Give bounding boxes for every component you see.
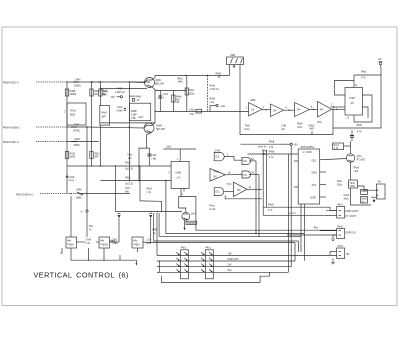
resistor R489 xyxy=(185,88,188,95)
svg-text:R4xx: R4xx xyxy=(337,181,343,183)
svg-text:1/4: 1/4 xyxy=(251,109,255,111)
wire q487 up xyxy=(179,196,186,212)
wire g2 out xyxy=(224,191,233,193)
svg-text:L/O: L/O xyxy=(177,178,181,180)
wire disp fls feed2 xyxy=(287,234,337,236)
wire r2 feed xyxy=(129,95,134,97)
svg-text:SD1-067: SD1-067 xyxy=(156,129,166,131)
svg-text:NC: NC xyxy=(252,172,256,174)
transistor Q487 xyxy=(182,212,190,220)
wire q486 top xyxy=(350,141,352,154)
wire u7b out xyxy=(249,174,259,176)
connector P481 xyxy=(337,207,345,219)
svg-text:C445: C445 xyxy=(76,190,82,192)
capacitor C481 xyxy=(158,95,162,97)
wire Q484 emit xyxy=(146,133,151,149)
tap arrow x119 xyxy=(118,212,121,214)
svg-text:R4x1: R4x1 xyxy=(361,72,367,74)
svg-text:(3300): (3300) xyxy=(74,86,81,88)
svg-text:DISP EXIT: DISP EXIT xyxy=(228,259,240,261)
svg-text:R4x0: R4x0 xyxy=(177,78,183,80)
wire y123 xyxy=(100,122,155,124)
wire mesh h107 xyxy=(155,111,249,113)
svg-text:R4x3: R4x3 xyxy=(146,189,152,191)
svg-text:2: 2 xyxy=(64,112,66,114)
svg-text:R4xx: R4xx xyxy=(189,90,195,92)
ic U487 box xyxy=(345,88,363,116)
wire vbus x304 xyxy=(303,204,305,234)
svg-text:39x: 39x xyxy=(176,99,181,101)
svg-text:+12x: +12x xyxy=(220,106,226,108)
wire h207 xyxy=(263,207,337,210)
svg-text:SD1-067: SD1-067 xyxy=(155,83,165,85)
resistor R441 xyxy=(99,89,102,96)
svg-text:36P: 36P xyxy=(101,117,106,119)
svg-text:5: 5 xyxy=(169,173,171,175)
wire s484 bottom xyxy=(225,195,262,198)
svg-text:R4x8: R4x8 xyxy=(354,168,360,170)
wire vbus x263 xyxy=(262,150,264,216)
svg-text:36P: 36P xyxy=(94,157,99,159)
tap arrow x150 xyxy=(149,212,152,214)
svg-text:x6: x6 xyxy=(228,172,231,174)
triangle S484 xyxy=(234,182,248,196)
svg-text:U7x: U7x xyxy=(243,175,248,177)
svg-text:R4x8: R4x8 xyxy=(297,124,303,126)
svg-text:5 31: 5 31 xyxy=(227,184,232,186)
svg-text:x1: x1 xyxy=(355,85,358,87)
wire u7a out xyxy=(249,160,256,162)
svg-text:R4x1: R4x1 xyxy=(334,145,340,147)
wire supply feed2 xyxy=(248,153,299,155)
resistor R411b xyxy=(65,152,68,159)
svg-text:1.2kP 1/2: 1.2kP 1/2 xyxy=(115,92,125,94)
svg-text:1P: 1P xyxy=(137,100,140,102)
wire bus row3 xyxy=(154,213,299,241)
svg-text:T4x: T4x xyxy=(378,182,383,184)
svg-text:T4(D)+: T4(D)+ xyxy=(133,245,141,247)
svg-text:R4x0: R4x0 xyxy=(357,125,363,127)
svg-text:1.18P: 1.18P xyxy=(131,115,138,117)
and gate G2 xyxy=(214,188,224,196)
wire vbus x298 xyxy=(297,241,299,252)
wire vbus x266 xyxy=(266,150,268,207)
svg-text:2: 2 xyxy=(227,154,229,156)
connector P482 xyxy=(337,229,345,239)
svg-text:C4x2: C4x2 xyxy=(166,147,172,149)
svg-text:HD: HD xyxy=(346,254,350,256)
wire vbus x301 xyxy=(300,204,302,236)
node +12V xyxy=(216,104,218,106)
connector P483 xyxy=(337,248,345,259)
svg-text:C4x4: C4x4 xyxy=(86,240,92,242)
svg-text:C448: C448 xyxy=(74,139,80,141)
svg-text:GDL: GDL xyxy=(312,161,317,163)
svg-text:(4k: (4k xyxy=(128,158,132,160)
svg-text:4.7k: 4.7k xyxy=(357,132,362,134)
svg-text:(xL/1.5): (xL/1.5) xyxy=(125,169,133,171)
wire box links xyxy=(77,241,86,243)
svg-text:4x6x: 4x6x xyxy=(344,198,350,200)
svg-text:U485: U485 xyxy=(176,173,182,175)
svg-text:+x: +x xyxy=(80,212,83,214)
wire pin row4 xyxy=(157,271,288,273)
box T488 xyxy=(349,180,358,188)
svg-text:x: x xyxy=(182,194,184,196)
svg-text:2: 2 xyxy=(263,107,265,109)
svg-text:.47uF 1/x: .47uF 1/x xyxy=(210,89,221,91)
svg-text:C4x7: C4x7 xyxy=(138,117,144,119)
wire J480 pins xyxy=(233,65,235,67)
svg-text:TR660P: TR660P xyxy=(187,223,196,225)
svg-text:R421: R421 xyxy=(94,154,100,156)
svg-text:GND: GND xyxy=(312,173,317,175)
wire bottom collect xyxy=(61,248,63,253)
svg-text:P4x1: P4x1 xyxy=(206,248,212,250)
svg-text:R487: R487 xyxy=(117,89,123,91)
wire ic bottom line xyxy=(333,75,381,128)
gate U7a xyxy=(242,157,251,164)
label TR660P xyxy=(186,221,197,224)
wire cap below ic xyxy=(351,130,353,135)
svg-text:1P: 1P xyxy=(176,102,179,104)
svg-text:R4x0: R4x0 xyxy=(101,91,107,93)
svg-text:C447: C447 xyxy=(75,80,81,82)
svg-text:P4x1: P4x1 xyxy=(338,205,344,207)
wire line y166 xyxy=(67,165,171,167)
wire vbus x288 xyxy=(287,154,289,272)
gate U7b xyxy=(242,171,251,178)
svg-text:(x): (x) xyxy=(362,201,365,203)
wire oa4-out xyxy=(332,108,346,110)
inverter G486 xyxy=(210,169,225,182)
wire vbus x259 xyxy=(258,175,260,237)
wire pinrow left ends xyxy=(156,213,158,255)
svg-text:DISP FLS: DISP FLS xyxy=(346,233,357,235)
svg-text:R4x7: R4x7 xyxy=(125,177,131,179)
svg-text:NC: NC xyxy=(251,159,255,161)
svg-text:+5V: +5V xyxy=(294,145,299,147)
wire oa1-2 xyxy=(262,109,271,111)
resistor R488b xyxy=(172,95,175,102)
wire vert x207 xyxy=(207,76,209,112)
svg-text:R411: R411 xyxy=(70,111,76,113)
svg-text:R4x: R4x xyxy=(318,122,323,124)
svg-text:4.7k: 4.7k xyxy=(269,147,274,149)
svg-text:T4x1: T4x1 xyxy=(127,155,133,157)
svg-text:G4x0: G4x0 xyxy=(215,151,221,153)
svg-text:P4x2: P4x2 xyxy=(338,227,344,229)
wire h215 xyxy=(263,214,337,216)
resistor R413 box xyxy=(100,106,110,126)
sub box T484 xyxy=(139,148,149,180)
svg-text:G4x6: G4x6 xyxy=(214,171,220,173)
svg-text:3k: 3k xyxy=(153,233,156,235)
box H480 xyxy=(66,237,77,248)
wire ic loop xyxy=(335,81,355,96)
svg-text:1.3Bx: 1.3Bx xyxy=(112,243,119,245)
wire drop x86 xyxy=(86,210,88,212)
svg-text:R4x8: R4x8 xyxy=(210,86,216,88)
svg-text:Q483: Q483 xyxy=(155,80,161,82)
svg-text:R4x8: R4x8 xyxy=(269,152,275,154)
wire bus row2 xyxy=(159,213,301,236)
svg-text:4.5x: 4.5x xyxy=(189,114,194,116)
wire input2 xyxy=(67,126,87,128)
label P4x5 xyxy=(361,190,368,195)
wire oa2-3 xyxy=(284,109,295,111)
svg-text:H4x: H4x xyxy=(133,241,138,243)
resistor R411 box xyxy=(67,103,86,125)
svg-text:PWD IN B2(+)-C: PWD IN B2(+)-C xyxy=(16,194,34,196)
wire ic pin net xyxy=(179,195,196,197)
svg-text:W4x2: W4x2 xyxy=(309,125,316,127)
wire drop x71 xyxy=(70,196,72,237)
wire input1 xyxy=(67,81,150,83)
svg-text:C4x1: C4x1 xyxy=(163,94,169,96)
resistor R401 xyxy=(90,89,93,96)
svg-text:(.2k: (.2k xyxy=(281,129,286,131)
wire bus x67 xyxy=(66,82,68,194)
svg-text:(4B: (4B xyxy=(125,191,129,193)
wire collector line xyxy=(155,75,229,77)
transistor Q486 xyxy=(346,154,354,162)
svg-text:+5V: +5V xyxy=(228,253,233,255)
svg-text:R4x8: R4x8 xyxy=(361,191,367,193)
box right small xyxy=(377,184,386,199)
svg-text:R411: R411 xyxy=(70,154,76,156)
wire bus x91 xyxy=(91,82,93,166)
wire supply feed xyxy=(241,143,283,145)
svg-text:(4.8k): (4.8k) xyxy=(117,111,123,113)
svg-text:1K: 1K xyxy=(218,77,221,79)
svg-text:SD5 SUPPLY: SD5 SUPPLY xyxy=(301,147,316,149)
transistor Q483 xyxy=(145,78,155,88)
svg-text:(49x): (49x) xyxy=(178,81,184,83)
svg-text:1: 1 xyxy=(246,107,248,109)
wire t488 net xyxy=(351,188,372,205)
svg-text:R482: R482 xyxy=(216,74,222,76)
svg-text:C4x7: C4x7 xyxy=(125,188,131,190)
svg-text:R488: R488 xyxy=(131,111,137,113)
svg-text:PWM IN B27-C: PWM IN B27-C xyxy=(3,83,19,85)
wire bus x115 xyxy=(115,166,117,212)
svg-text:U487: U487 xyxy=(350,98,356,100)
svg-text:x2: x2 xyxy=(347,118,350,120)
svg-text:R488: R488 xyxy=(70,91,76,93)
svg-text:12P: 12P xyxy=(111,97,116,99)
svg-text:C4x8: C4x8 xyxy=(361,199,367,201)
svg-text:(xx): (xx) xyxy=(147,243,151,245)
wire bus x100 xyxy=(99,82,101,106)
svg-text:P4x1: P4x1 xyxy=(181,248,187,250)
wire q486 down xyxy=(350,162,352,180)
wire pin row2 xyxy=(157,260,295,262)
svg-text:x: x xyxy=(163,97,165,99)
node +5V supply xyxy=(290,143,292,145)
svg-text:100x: 100x xyxy=(337,184,343,186)
wire bottom long xyxy=(161,272,269,282)
wire u485 top xyxy=(163,148,196,150)
wire emitter left xyxy=(100,88,147,90)
wire bus x129 xyxy=(128,82,130,181)
svg-text:4.7k: 4.7k xyxy=(361,78,366,80)
box H482 xyxy=(132,237,143,248)
svg-text:(.3k): (.3k) xyxy=(354,171,359,173)
svg-text:R4x8: R4x8 xyxy=(176,97,182,99)
svg-text:(xxx): (xxx) xyxy=(69,180,74,182)
svg-text:R401: R401 xyxy=(94,91,100,93)
svg-text:R4x8: R4x8 xyxy=(269,142,275,144)
svg-text:R4x8: R4x8 xyxy=(210,99,216,101)
svg-text:( .8x: ( .8x xyxy=(146,192,151,194)
wire mesh h91 xyxy=(155,90,187,92)
svg-text:(1.2k): (1.2k) xyxy=(210,209,216,211)
op-amp U480d xyxy=(318,102,332,118)
svg-text:C4x8: C4x8 xyxy=(69,177,75,179)
svg-text:(xL/1.5): (xL/1.5) xyxy=(125,184,133,186)
svg-text:C4B: C4B xyxy=(281,126,286,128)
svg-text:(C4x: (C4x xyxy=(297,127,303,129)
wire ic top feed xyxy=(354,67,381,75)
svg-text:G4x5: G4x5 xyxy=(344,195,350,197)
svg-text:U480: U480 xyxy=(250,100,256,102)
svg-text:11: 11 xyxy=(249,187,252,189)
wire q486 base xyxy=(326,159,346,160)
svg-text:xxx xxx: xxx xxx xyxy=(288,213,296,215)
svg-text:Q484: Q484 xyxy=(156,126,162,128)
connector P4x1 block a xyxy=(181,250,189,279)
svg-text:C4x3: C4x3 xyxy=(151,155,157,157)
wire pin row3 xyxy=(157,266,291,268)
wire input2 ext xyxy=(87,127,144,128)
svg-text:VERTICAL CONTROL (6): VERTICAL CONTROL (6) xyxy=(34,270,129,279)
svg-text:H4x: H4x xyxy=(67,241,72,243)
resistor R421 xyxy=(90,152,93,159)
wire bus row4 xyxy=(151,218,295,242)
power +12 top right xyxy=(379,62,382,65)
svg-text:S/8: S/8 xyxy=(237,190,241,192)
connector P4x1 block b xyxy=(205,250,213,279)
wire inv out xyxy=(225,174,242,176)
svg-text:ACT: ACT xyxy=(312,184,317,187)
svg-text:R4xx: R4xx xyxy=(210,205,216,207)
svg-text:J480: J480 xyxy=(230,55,236,57)
svg-text:XY CONT: XY CONT xyxy=(346,216,357,218)
svg-text:1/2: 1/2 xyxy=(351,103,355,105)
svg-text:PWM IN B2+-C: PWM IN B2+-C xyxy=(3,142,19,144)
box SD5 pins left xyxy=(294,160,298,162)
wire t484 drop xyxy=(139,166,141,201)
wire input4 xyxy=(80,193,130,195)
svg-text:1 = GND: 1 = GND xyxy=(303,152,312,154)
svg-text:7k: 7k xyxy=(89,229,92,231)
wire ic out left xyxy=(331,106,346,108)
svg-text:R4B: R4B xyxy=(152,230,157,232)
svg-text:CW: CW xyxy=(228,265,233,267)
wire Q483 coll xyxy=(152,76,155,81)
svg-text:DISP CONT: DISP CONT xyxy=(346,211,359,213)
svg-text:H4x: H4x xyxy=(100,241,105,243)
svg-text:DISP: DISP xyxy=(311,198,317,200)
op-amp U480b xyxy=(271,104,284,117)
svg-text:x4x0 4x: x4x0 4x xyxy=(258,147,267,149)
op-amp U480c xyxy=(295,103,310,117)
resistor R418 box xyxy=(129,103,150,121)
svg-text:R4x8: R4x8 xyxy=(268,205,274,207)
svg-text:R486: R486 xyxy=(136,96,142,98)
wire line y181 xyxy=(100,180,171,182)
svg-text:SIG: SIG xyxy=(228,270,232,272)
svg-text:R4x8: R4x8 xyxy=(125,163,131,165)
wire g1 out xyxy=(224,157,242,161)
svg-text:Q4xx: Q4xx xyxy=(357,156,363,158)
wire feedback xyxy=(240,65,333,135)
wire mesh v175 xyxy=(172,91,174,112)
wire trr line xyxy=(196,196,337,230)
wire bus x87 xyxy=(86,127,88,210)
wire oa3-4 xyxy=(310,109,318,111)
and gate G1 xyxy=(214,152,224,160)
svg-text:R4x3: R4x3 xyxy=(101,113,107,115)
node 12P terminal xyxy=(120,96,122,98)
svg-text:L4x0: L4x0 xyxy=(189,110,195,112)
wire Q484 coll xyxy=(152,110,156,126)
wire emitter mesh v158 xyxy=(159,91,161,112)
svg-text:1.3x: 1.3x xyxy=(86,243,91,245)
svg-text:(.4x): (.4x) xyxy=(210,102,215,104)
svg-text:(7800): (7800) xyxy=(73,145,80,147)
svg-text:T4x8: T4x8 xyxy=(350,183,356,185)
svg-text:4.7k: 4.7k xyxy=(268,210,273,212)
svg-text:2/4: 2/4 xyxy=(273,110,277,112)
svg-text:(688): (688) xyxy=(76,198,82,200)
svg-text:(820): (820) xyxy=(70,115,76,117)
svg-text:( .8k): ( .8k) xyxy=(151,159,157,161)
svg-text:C4x0: C4x0 xyxy=(117,107,123,109)
svg-text:T4(D)B: T4(D)B xyxy=(100,245,108,247)
svg-text:+12: +12 xyxy=(378,59,383,61)
svg-text:4: 4 xyxy=(286,108,288,110)
svg-text:C4xx: C4xx xyxy=(244,129,250,131)
wire bus row1 xyxy=(166,181,305,234)
wire input1 ext xyxy=(129,81,144,84)
svg-text:(820): (820) xyxy=(70,157,76,159)
svg-text:x: x xyxy=(177,159,179,161)
transistor Q484 xyxy=(144,123,154,133)
svg-text:36k: 36k xyxy=(94,94,99,96)
svg-text:G/1: G/1 xyxy=(216,156,220,158)
wire input3 xyxy=(67,141,99,143)
box H481 xyxy=(99,237,110,248)
op-amp U480a xyxy=(249,103,263,117)
svg-text:(39x): (39x) xyxy=(189,93,195,95)
svg-text:PWM IN B2M-C: PWM IN B2M-C xyxy=(3,128,20,130)
svg-text:P71-607: P71-607 xyxy=(357,159,367,161)
wire pin row1 xyxy=(157,254,337,256)
svg-text:P4x3: P4x3 xyxy=(338,246,344,248)
wire Q483 emit xyxy=(152,87,155,112)
svg-text:7400: 7400 xyxy=(350,186,356,188)
wire q487 left xyxy=(116,211,183,213)
svg-text:4/4: 4/4 xyxy=(320,109,324,111)
wire vbus x256 xyxy=(255,161,257,234)
wire s484 out xyxy=(247,188,262,190)
svg-text:T4x8: T4x8 xyxy=(244,126,250,128)
svg-text:(6800): (6800) xyxy=(70,94,77,96)
svg-text:U7x: U7x xyxy=(243,161,248,163)
svg-text:T4(D)+: T4(D)+ xyxy=(67,245,75,247)
